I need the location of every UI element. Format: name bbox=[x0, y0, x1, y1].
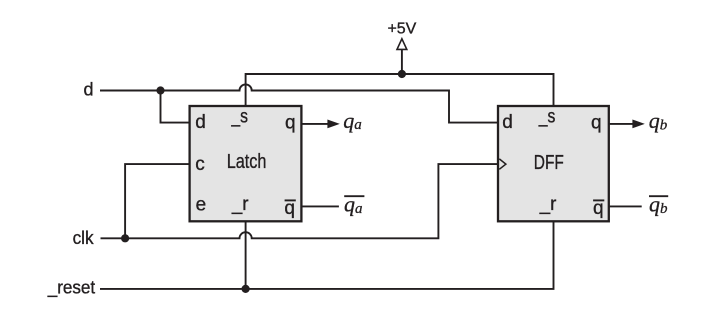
svg-text:d: d bbox=[195, 112, 206, 133]
wire latch _r vertical bbox=[245, 221, 247, 289]
svg-text:qa: qa bbox=[343, 108, 362, 133]
wire clk horizontal with hop over _r vertical, to dff clock pin bbox=[101, 164, 499, 238]
svg-text:qb: qb bbox=[649, 108, 668, 133]
svg-text:e: e bbox=[196, 194, 207, 215]
wire dff qbar output bbox=[609, 205, 642, 207]
dff U2 body bbox=[498, 106, 609, 221]
latch pin qbar overline bbox=[285, 199, 296, 201]
svg-text:_r: _r bbox=[231, 194, 249, 215]
power +5V triangle symbol bbox=[397, 39, 407, 50]
svg-text:_reset: _reset bbox=[47, 277, 95, 298]
latch U1 body bbox=[190, 106, 302, 221]
arrow latch q bbox=[327, 120, 339, 129]
dff clock chevron bbox=[499, 159, 506, 169]
wire +5V top rail to latch _s and dff _s bbox=[246, 74, 554, 106]
wire d horizontal with hop over _s vertical, then to dff d pin bbox=[100, 84, 498, 122]
svg-text:d: d bbox=[502, 112, 513, 133]
wire dff q output bbox=[609, 123, 634, 125]
svg-text:DFF: DFF bbox=[534, 152, 564, 174]
svg-text:clk: clk bbox=[73, 228, 95, 248]
wire d branch to latch d pin bbox=[161, 91, 190, 123]
svg-text:q: q bbox=[285, 112, 296, 133]
arrow dff q bbox=[632, 120, 644, 129]
wire clk branch to latch c pin bbox=[125, 164, 190, 238]
node clk junction bbox=[121, 234, 129, 242]
wire +5V stem bbox=[401, 50, 403, 74]
node +5V junction bbox=[398, 70, 406, 78]
svg-text:_s: _s bbox=[231, 107, 248, 128]
wire latch qbar output bbox=[301, 205, 339, 207]
qb-bar overline bbox=[649, 195, 668, 197]
svg-text:Latch: Latch bbox=[227, 151, 267, 173]
svg-text:_r: _r bbox=[539, 194, 557, 215]
node d junction bbox=[156, 86, 164, 94]
qa-bar overline bbox=[344, 195, 364, 197]
svg-text:_s: _s bbox=[538, 107, 555, 128]
svg-text:d: d bbox=[84, 80, 94, 100]
wire _reset horizontal to dff _r bbox=[100, 221, 554, 289]
node _reset junction bbox=[242, 285, 250, 293]
svg-text:+5V: +5V bbox=[387, 21, 416, 38]
svg-text:q: q bbox=[591, 112, 602, 133]
wire latch q output bbox=[301, 123, 329, 125]
dff pin qbar overline bbox=[593, 199, 604, 201]
svg-text:c: c bbox=[195, 154, 205, 175]
